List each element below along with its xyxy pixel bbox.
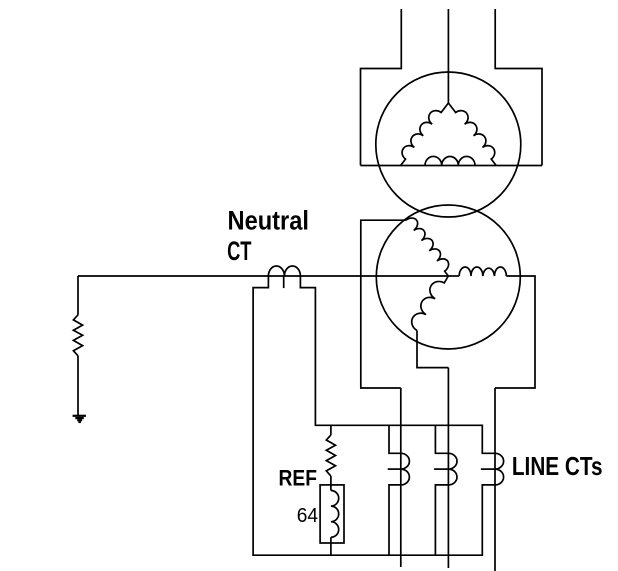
- wire top-left phase lead: [361, 9, 402, 166]
- resistor REF stabilizing: [326, 435, 335, 476]
- wire resistor to relay box: [330, 476, 332, 490]
- wire top-right phase lead: [495, 9, 542, 166]
- wire CT3 primary feeder: [494, 388, 496, 571]
- wire relay box to bottom bus: [330, 537, 332, 555]
- svg-text:64: 64: [297, 504, 318, 527]
- wire neutral conductor: [78, 275, 448, 277]
- wire resistor to ground: [77, 356, 79, 416]
- wye winding lower-left coil: [412, 276, 449, 331]
- transformer secondary winding circle: [376, 205, 520, 349]
- delta winding bottom coil: [425, 156, 475, 165]
- wire neutral CT secondary right lead and top bus: [300, 276, 495, 453]
- relay 64 box: [320, 485, 344, 543]
- line CT2 secondary: [435, 425, 448, 453]
- ground symbol: [73, 416, 86, 422]
- wire neutral grounding lead: [77, 276, 79, 315]
- neutral CT primary humps: [268, 266, 300, 276]
- resistor neutral grounding: [73, 315, 82, 356]
- delta winding left side coil: [401, 103, 449, 166]
- wire upper-left phase staircase to CT1: [361, 220, 406, 388]
- wye winding right coil: [459, 267, 506, 276]
- wire right phase to CT3: [495, 276, 535, 388]
- line CT3 polarity stub: [481, 468, 495, 470]
- line CT3 secondary humps: [495, 453, 504, 485]
- svg-text:REF: REF: [279, 466, 318, 491]
- svg-text:Neutral: Neutral: [228, 205, 310, 235]
- wire CT2 primary feeder: [447, 368, 449, 568]
- delta winding right side coil: [448, 103, 496, 166]
- transformer primary winding circle: [376, 72, 521, 217]
- wire top-center phase lead: [447, 9, 449, 103]
- wire neutral CT secondary left lead and bottom bus: [253, 276, 495, 555]
- line CT1 secondary: [389, 425, 401, 453]
- wire lower-left phase to CT2: [417, 331, 448, 368]
- svg-text:CT: CT: [227, 236, 252, 266]
- wire REF branch from bus: [330, 425, 332, 435]
- wire delta bottom bus: [361, 165, 543, 167]
- svg-text:LINE CTs: LINE CTs: [512, 451, 603, 481]
- wye winding upper-left coil: [406, 218, 449, 276]
- relay 64 operating coil: [331, 491, 339, 538]
- wire right phase stub: [448, 275, 459, 277]
- neutral CT polarity stub: [283, 276, 285, 288]
- wire CT1 primary feeder: [400, 388, 402, 567]
